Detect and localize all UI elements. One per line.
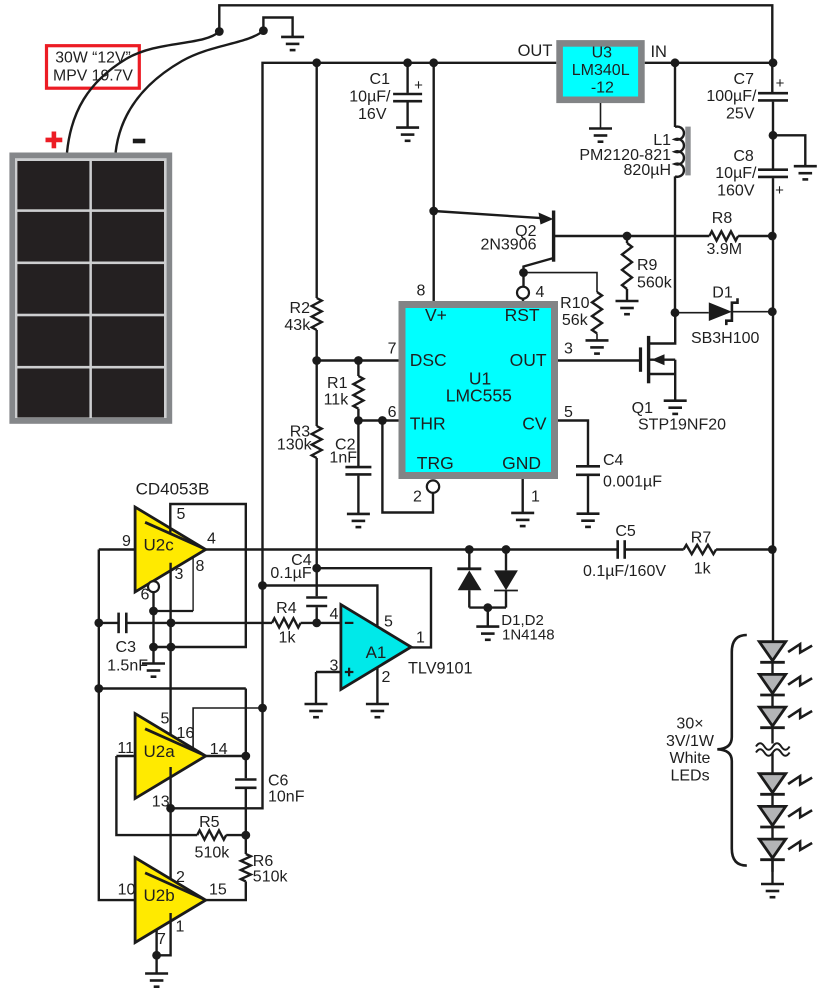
wire U2c pin 8 (192, 557, 194, 611)
wire (154, 610, 194, 612)
svg-text:+: + (776, 75, 785, 92)
junction (378, 416, 387, 425)
svg-text:MPV 19.7V: MPV 19.7V (53, 68, 133, 85)
junction (258, 704, 267, 713)
wire L1 to D1/Q1 node (674, 176, 676, 312)
resistor R5 (197, 831, 226, 840)
svg-text:3V/1W: 3V/1W (666, 733, 715, 750)
wire U3 IN to right rail (645, 62, 773, 64)
wire (316, 63, 318, 298)
svg-text:7: 7 (157, 931, 166, 948)
ground (D1 D2) (476, 627, 499, 640)
resistor R2 (312, 298, 322, 330)
svg-text:RST: RST (505, 305, 540, 325)
svg-text:CD4053B: CD4053B (136, 479, 210, 498)
svg-text:C5: C5 (615, 523, 636, 540)
capacitor C8 (758, 170, 788, 177)
svg-text:+: + (414, 77, 423, 94)
wire (357, 409, 359, 421)
svg-text:U2c: U2c (144, 535, 175, 554)
wire (716, 548, 772, 550)
wire U1 OUT to Q1 gate (558, 359, 641, 361)
wire (626, 289, 628, 301)
capacitor C2 (345, 467, 371, 474)
wire (316, 330, 318, 361)
svg-text:STP19NF20: STP19NF20 (638, 417, 726, 434)
svg-text:R9: R9 (637, 257, 658, 274)
wire U2a pin 16 to rail (193, 708, 262, 750)
junction (149, 643, 158, 652)
transistor Q2 base bar (552, 211, 555, 262)
wire minus node to ground (263, 18, 292, 37)
panel minus terminal (133, 139, 146, 144)
wire (522, 273, 524, 287)
wire pin 6 to ground (152, 592, 154, 663)
U1 pin 4 inversion circle (517, 287, 529, 299)
capacitor C1 (393, 94, 422, 101)
junction (768, 307, 777, 316)
inductor L1 coil (675, 127, 684, 177)
wire (674, 360, 676, 400)
svg-text:V+: V+ (425, 305, 447, 325)
svg-text:5: 5 (564, 404, 573, 421)
svg-text:160V: 160V (717, 182, 755, 199)
ground (C4) (577, 514, 600, 527)
junction (312, 564, 321, 573)
wire V+ rail to U1 pin 8 (433, 63, 435, 301)
ground (C7/C8 junction) (794, 166, 817, 179)
svg-text:0.001µF: 0.001µF (603, 474, 662, 491)
svg-text:100µF/: 100µF/ (706, 88, 757, 105)
ground (U1) (511, 513, 534, 526)
svg-text:LEDs: LEDs (670, 767, 709, 784)
wire R4 to A1 inverting input (301, 622, 341, 624)
capacitor C4 0.1uF (306, 598, 327, 607)
wire Q1 body stub (649, 359, 676, 361)
wire (771, 860, 773, 883)
junction (354, 416, 363, 425)
svg-text:R10: R10 (560, 295, 589, 312)
junction (354, 356, 363, 365)
node panel plus (215, 27, 224, 36)
svg-text:2: 2 (176, 869, 185, 886)
panel plus terminal (46, 132, 63, 149)
wire (771, 728, 773, 744)
wire (316, 568, 318, 596)
svg-text:8: 8 (417, 283, 426, 300)
wire A1 non-inverting input (316, 671, 341, 673)
wire CV pin 5 (558, 421, 588, 466)
wire (316, 607, 318, 623)
diode D2 (1N4148 pair, right) (505, 550, 507, 571)
transistor Q2 2N3906 emitter wire with arrow (434, 211, 543, 218)
LED 3 of white LED string (759, 707, 785, 726)
junction (483, 603, 492, 612)
wire right rail down to LEDs (772, 178, 774, 642)
junction (258, 581, 267, 590)
svg-text:2N3906: 2N3906 (480, 237, 536, 254)
svg-text:R7: R7 (691, 529, 712, 546)
wire (245, 689, 247, 779)
wire U2a pin 13 to U2b pin 2 (169, 767, 171, 886)
wire oscillator output row (206, 548, 617, 550)
svg-text:1: 1 (416, 630, 425, 647)
wire THR row (358, 419, 398, 421)
svg-text:5: 5 (384, 614, 393, 631)
svg-text:3.9M: 3.9M (707, 241, 743, 258)
svg-text:OUT: OUT (518, 42, 553, 60)
svg-text:11: 11 (117, 740, 134, 757)
panel rating label box (47, 46, 140, 88)
svg-text:1.5nF: 1.5nF (107, 658, 148, 675)
svg-text:16V: 16V (358, 106, 387, 123)
diode D1 SB3H100 (709, 302, 732, 321)
junction (429, 58, 438, 67)
svg-text:43k: 43k (284, 317, 311, 334)
analog switch U2b (CD4053B) (135, 858, 206, 943)
LED 2 of white LED string (759, 674, 785, 693)
svg-text:U2a: U2a (144, 742, 176, 761)
svg-text:GND: GND (502, 453, 541, 473)
wire panel minus to node (116, 31, 264, 153)
wire Q1 drain (649, 313, 676, 344)
MOSFET Q1 STP19NF20 (639, 347, 642, 371)
junction (312, 356, 321, 365)
ground (R10) (586, 340, 609, 353)
wire (245, 789, 247, 835)
junction (465, 545, 474, 554)
wire (596, 333, 598, 340)
wire (245, 835, 247, 854)
resistor R9 (622, 243, 632, 289)
svg-text:5: 5 (177, 506, 186, 523)
wire U2c pin 9 (99, 548, 135, 550)
capacitor C5 (618, 540, 625, 559)
svg-text:D1: D1 (712, 285, 733, 302)
svg-text:7: 7 (388, 340, 397, 357)
wire (316, 361, 318, 427)
svg-text:10µF/: 10µF/ (349, 89, 391, 106)
svg-text:A1: A1 (366, 643, 387, 662)
junction (312, 619, 321, 628)
ground (U2b pins 1 7) (145, 974, 168, 987)
junction (167, 643, 176, 652)
svg-text:1k: 1k (694, 560, 712, 577)
svg-text:TLV9101: TLV9101 (408, 659, 473, 677)
capacitor C3 (119, 613, 127, 634)
analog switch U2c (CD4053B) (135, 507, 206, 592)
junction (429, 207, 438, 216)
wire DSC row (317, 359, 399, 361)
wire (732, 311, 772, 313)
junction (149, 607, 158, 616)
ground (A1 pin 2) (366, 704, 389, 717)
junction (671, 58, 680, 67)
wire (487, 608, 489, 627)
solar panel PV module (9, 153, 172, 424)
svg-text:IN: IN (650, 43, 667, 61)
wire U2a pin 11 (116, 755, 135, 757)
wire Q1 source stub (649, 373, 676, 375)
svg-text:CV: CV (522, 414, 547, 434)
resistor R7 (684, 545, 717, 554)
wire (771, 753, 773, 774)
junction (403, 58, 412, 67)
junction (312, 58, 321, 67)
svg-text:4: 4 (330, 606, 339, 623)
wire U2c pin 3 to U2a pin 5 (169, 563, 171, 741)
svg-text:2: 2 (382, 669, 391, 686)
svg-text:30×: 30× (676, 716, 703, 733)
wire U1 GND pin 1 (522, 479, 524, 513)
ground (LED string) (761, 884, 784, 897)
wire (675, 312, 709, 314)
diode D1 (1N4148 pair, left) (468, 550, 470, 569)
svg-text:U3: U3 (592, 45, 613, 62)
svg-text:R8: R8 (712, 210, 733, 227)
wire U3 GND pin (600, 103, 602, 129)
svg-text:R2: R2 (290, 300, 311, 317)
svg-text:2: 2 (413, 489, 422, 506)
svg-text:10nF: 10nF (268, 789, 305, 806)
op-amp A1 TLV9101 (341, 605, 411, 690)
junction (502, 545, 511, 554)
analog switch U2a (CD4053B) (135, 714, 206, 799)
wire (315, 672, 317, 703)
svg-text:C6: C6 (268, 773, 289, 790)
svg-text:820µH: 820µH (624, 162, 671, 179)
wire (99, 687, 246, 689)
LED 4 of white LED string (759, 774, 785, 793)
wire pin 11 to R5 (116, 756, 197, 835)
wire A1 pin 2 (376, 667, 378, 703)
wire (357, 476, 359, 514)
resistor R6 (241, 854, 251, 881)
svg-text:1nF: 1nF (329, 450, 357, 467)
svg-text:R1: R1 (327, 375, 348, 392)
svg-text:R5: R5 (199, 814, 220, 831)
ground (Q1 source) (664, 401, 687, 414)
svg-text:SB3H100: SB3H100 (691, 330, 760, 347)
junction (94, 684, 103, 693)
resistor R4 (272, 618, 301, 627)
wire Q2 collector row (554, 235, 710, 237)
junction (768, 545, 777, 554)
node Q2 collector / RST (519, 268, 528, 277)
junction (769, 58, 778, 67)
wire (469, 606, 506, 608)
LED 5 of white LED string (759, 806, 785, 825)
wire U2b pin 1 (157, 913, 171, 955)
U1 pin 2 inversion circle (427, 480, 439, 492)
svg-text:130k: 130k (277, 437, 313, 454)
wire R3 bottom to C4 node (316, 458, 318, 568)
wire A1 feedback loop (317, 568, 431, 647)
svg-text:C8: C8 (733, 148, 754, 165)
svg-text:+: + (775, 182, 784, 199)
wire (626, 236, 628, 243)
wire (357, 421, 359, 467)
junction (768, 232, 777, 241)
wire (99, 622, 118, 624)
wire (127, 622, 272, 624)
svg-text:560k: 560k (637, 274, 673, 291)
svg-text:56k: 56k (562, 312, 589, 329)
ground (C2) (347, 514, 370, 527)
junction (166, 804, 175, 813)
svg-text:510k: 510k (253, 868, 289, 885)
svg-text:U2b: U2b (144, 886, 175, 905)
svg-text:16: 16 (177, 725, 195, 742)
wire (406, 63, 408, 93)
wire top rail (219, 5, 772, 92)
wire R6 to U2b output (206, 881, 246, 900)
svg-text:LM340L: LM340L (572, 62, 630, 79)
svg-text:White: White (670, 750, 711, 767)
junction (671, 308, 680, 317)
wire A1 pin 5 supply (263, 586, 378, 627)
svg-text:1: 1 (531, 489, 540, 506)
ground (R9) (616, 301, 639, 314)
wire to ground tap (773, 135, 805, 166)
wire pin4 node to R10 (524, 273, 598, 292)
svg-text:1k: 1k (279, 630, 297, 647)
inductor L1 core bar (685, 127, 690, 176)
junction (623, 232, 632, 241)
transistor Q2 collector diagonal to pin 4 (524, 258, 554, 273)
svg-text:4: 4 (536, 284, 545, 301)
svg-text:9: 9 (122, 533, 131, 550)
ground (panel minus) (281, 37, 304, 50)
svg-text:3: 3 (175, 566, 184, 583)
wire (406, 102, 408, 127)
LED 6 of white LED string (759, 839, 785, 858)
svg-text:1: 1 (176, 919, 185, 936)
svg-text:R4: R4 (276, 600, 297, 617)
ground (U3) (589, 129, 612, 142)
svg-text:10µF/: 10µF/ (715, 165, 757, 182)
capacitor C4 0.001uF (576, 466, 600, 475)
wire U2c pin 5 loop (154, 504, 246, 647)
wire panel plus to node (67, 32, 219, 153)
svg-text:1N4148: 1N4148 (502, 626, 555, 643)
svg-text:C7: C7 (734, 71, 755, 88)
svg-text:0.1µF/160V: 0.1µF/160V (583, 563, 666, 580)
svg-text:LMC555: LMC555 (446, 385, 512, 405)
svg-text:8: 8 (196, 558, 205, 575)
svg-text:0.1µF: 0.1µF (270, 565, 311, 582)
svg-text:Q1: Q1 (632, 400, 653, 417)
svg-text:25V: 25V (726, 105, 755, 122)
wire (772, 102, 774, 169)
svg-text:C4: C4 (603, 452, 624, 469)
wire (357, 361, 359, 377)
junction (241, 831, 250, 840)
junction (152, 951, 161, 960)
wire (522, 299, 524, 301)
wire (674, 63, 676, 127)
ground (A1 pin 3) (305, 704, 328, 717)
wire left feedback rail to U2b pin 10 (99, 550, 135, 901)
LED 1 of white LED string (759, 642, 785, 661)
resistor R3 (312, 426, 322, 458)
svg-text:-12: -12 (591, 79, 614, 96)
junction (241, 752, 250, 761)
svg-text:THR: THR (410, 414, 446, 434)
IC U1 LMC555 (402, 305, 555, 476)
ground (C1) (396, 128, 419, 141)
wire TRG pin 2 loop (382, 421, 433, 513)
junction (167, 619, 176, 628)
svg-text:4: 4 (207, 531, 216, 548)
resistor R8 (709, 231, 738, 240)
resistor R10 (592, 292, 602, 333)
junction (769, 131, 778, 140)
svg-text:OUT: OUT (510, 350, 547, 370)
wire (738, 235, 772, 237)
wire 12V rail from U3 OUT, down left side (171, 63, 557, 809)
svg-text:11k: 11k (324, 391, 350, 408)
LED string brace (717, 635, 747, 866)
voltage regulator U3 LM340L-12 (560, 43, 642, 99)
wire (587, 476, 589, 514)
wire (626, 548, 684, 550)
svg-text:5: 5 (161, 710, 170, 727)
node panel minus (259, 26, 268, 35)
resistor R1 (353, 376, 363, 409)
U2c pin 6 inversion circle (148, 581, 159, 592)
wire U2a output pin 14 (206, 755, 246, 757)
svg-text:C3: C3 (116, 639, 137, 656)
svg-text:10: 10 (118, 882, 136, 899)
svg-text:DSC: DSC (410, 350, 447, 370)
junction (94, 619, 103, 628)
svg-text:C1: C1 (370, 71, 391, 88)
svg-text:6: 6 (388, 404, 397, 421)
capacitor C7 (758, 93, 788, 100)
capacitor C6 (235, 780, 256, 788)
svg-text:510k: 510k (195, 845, 231, 862)
svg-text:15: 15 (209, 882, 227, 899)
svg-text:TRG: TRG (417, 453, 454, 473)
solar panel cells (17, 161, 89, 209)
svg-text:3: 3 (564, 340, 573, 357)
wire U2b pin 7 (155, 929, 157, 972)
wire (226, 834, 246, 836)
ground (U2c pins 5 6 8) (142, 664, 165, 677)
